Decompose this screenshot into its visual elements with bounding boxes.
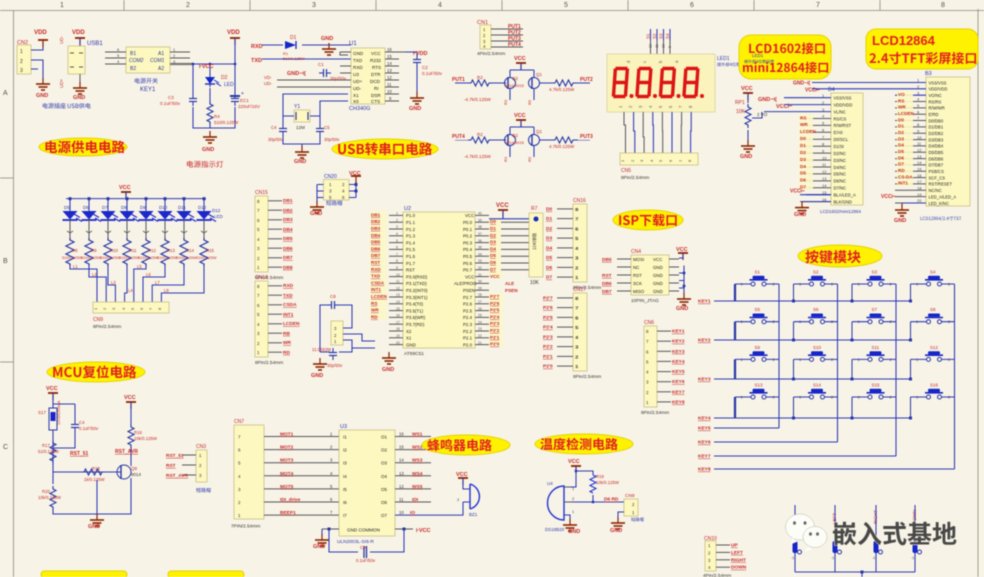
svg-text:35: 35 — [478, 246, 482, 250]
svg-text:D5: D5 — [490, 253, 496, 258]
svg-text:14: 14 — [822, 183, 827, 188]
svg-text:RB: RB — [283, 331, 290, 337]
svg-text:P2'2: P2'2 — [543, 344, 553, 350]
svg-text:E/RD: E/RD — [929, 112, 939, 117]
svg-text:17: 17 — [917, 179, 922, 184]
svg-text:LED1: LED1 — [752, 53, 764, 58]
svg-text:VCC: VCC — [46, 386, 58, 392]
svg-text:D7: D7 — [546, 275, 552, 281]
svg-text:GND: GND — [653, 265, 663, 270]
svg-text:Q9: Q9 — [131, 466, 138, 471]
svg-text:BLK/GND: BLK/GND — [834, 199, 852, 204]
svg-text:WR: WR — [283, 340, 292, 346]
svg-text:DB2: DB2 — [371, 219, 381, 224]
svg-text:PUT1: PUT1 — [452, 77, 465, 83]
svg-text:P3.2(INT0): P3.2(INT0) — [406, 288, 428, 293]
svg-text:D4/NC: D4/NC — [834, 165, 847, 170]
svg-text:P1.0: P1.0 — [406, 213, 416, 218]
svg-text:1: 1 — [329, 182, 332, 187]
svg-text:D8: D8 — [121, 205, 127, 210]
svg-text:UD-: UD- — [264, 81, 272, 86]
svg-text:D6/DB6: D6/DB6 — [929, 156, 944, 161]
svg-text:WR: WR — [898, 105, 906, 110]
svg-text:I5: I5 — [343, 487, 347, 492]
svg-text:18: 18 — [917, 186, 922, 191]
svg-text:12: 12 — [399, 484, 404, 489]
svg-text:32: 32 — [478, 266, 482, 270]
svg-text:8: 8 — [396, 259, 398, 263]
svg-text:10k/0.125W: 10k/0.125W — [596, 480, 620, 485]
svg-text:R3: R3 — [503, 99, 508, 105]
svg-text:CN20: CN20 — [324, 174, 337, 180]
svg-text:TXD: TXD — [353, 58, 363, 63]
svg-text:CN9: CN9 — [625, 493, 635, 499]
svg-text:LCDEN: LCDEN — [371, 294, 388, 299]
svg-text:S4: S4 — [665, 33, 670, 39]
svg-text:16: 16 — [917, 173, 922, 178]
svg-text:12: 12 — [649, 44, 653, 48]
svg-text:5: 5 — [396, 239, 398, 243]
svg-text:LED: LED — [214, 214, 224, 219]
svg-text:19: 19 — [917, 192, 922, 197]
svg-text:11.0592M: 11.0592M — [312, 347, 331, 352]
svg-text:D7: D7 — [898, 162, 904, 167]
svg-text:VDD/VDD: VDD/VDD — [929, 87, 948, 92]
svg-text:GND: GND — [409, 106, 421, 112]
svg-text:510/0.125W: 510/0.125W — [283, 56, 305, 61]
svg-text:GND: GND — [794, 212, 806, 218]
svg-text:DB1: DB1 — [283, 198, 293, 204]
svg-text:S8: S8 — [930, 307, 936, 312]
svg-text:1: 1 — [20, 49, 23, 55]
svg-text:10K: 10K — [530, 280, 540, 286]
svg-text:IO: IO — [410, 510, 415, 516]
svg-text:GND⊣(: GND⊣( — [758, 96, 777, 103]
svg-text:B: B — [3, 258, 8, 265]
svg-text:S13: S13 — [755, 383, 764, 388]
svg-text:P3.7(RD): P3.7(RD) — [406, 322, 425, 327]
svg-text:WS2: WS2 — [412, 445, 423, 451]
svg-text:CN14: CN14 — [255, 275, 268, 281]
svg-text:220uF/16V: 220uF/16V — [238, 104, 260, 109]
svg-text:8Pin/2.54mm: 8Pin/2.54mm — [621, 175, 649, 181]
svg-text:10: 10 — [387, 89, 392, 94]
svg-text:D3/DB3: D3/DB3 — [929, 137, 944, 142]
svg-text:A1: A1 — [158, 51, 164, 57]
svg-text:KEY1: KEY1 — [698, 299, 711, 305]
svg-text:R11: R11 — [129, 248, 137, 253]
svg-text:O6: O6 — [381, 500, 388, 505]
svg-text:X1: X1 — [406, 336, 412, 341]
svg-text:D7: D7 — [102, 205, 108, 210]
svg-text:R12: R12 — [148, 248, 156, 253]
svg-text:CN15: CN15 — [255, 190, 268, 196]
svg-text:P3.0(RXD): P3.0(RXD) — [406, 274, 428, 279]
svg-text:MOT5: MOT5 — [280, 484, 294, 490]
svg-text:L5: L5 — [137, 264, 142, 269]
svg-text:DB5: DB5 — [283, 236, 293, 242]
svg-text:2 VO: 2 VO — [757, 112, 768, 117]
svg-text:DCD: DCD — [370, 79, 381, 84]
svg-text:11: 11 — [399, 497, 404, 502]
svg-text:22: 22 — [478, 334, 482, 338]
svg-text:+: + — [241, 91, 244, 97]
svg-text:D0: D0 — [800, 136, 806, 141]
svg-text:P2'0: P2'0 — [490, 342, 500, 347]
svg-text:L8: L8 — [164, 288, 169, 293]
svg-text:7PIN/2.54mm: 7PIN/2.54mm — [231, 524, 260, 530]
svg-text:P2.7: P2.7 — [463, 295, 473, 300]
svg-text:C8: C8 — [330, 294, 336, 299]
svg-text:INT1: INT1 — [898, 181, 908, 186]
svg-text:P2.0: P2.0 — [463, 342, 473, 347]
svg-text:D1: D1 — [800, 143, 806, 148]
svg-text:L6: L6 — [146, 272, 151, 277]
svg-text:UD+: UD+ — [353, 79, 363, 84]
svg-text:D3: D3 — [800, 157, 806, 162]
svg-text:510/0.125W: 510/0.125W — [214, 120, 239, 125]
svg-text:VCC: VCC — [490, 274, 500, 279]
svg-text:PSEN: PSEN — [463, 288, 475, 293]
svg-text:KEY3: KEY3 — [698, 377, 711, 383]
svg-text:c: c — [642, 61, 647, 63]
svg-text:DOWN: DOWN — [731, 565, 747, 571]
svg-text:D2/NC: D2/NC — [834, 151, 847, 156]
svg-text:KEY5: KEY5 — [698, 426, 711, 432]
svg-text:DS18B20: DS18B20 — [545, 527, 565, 532]
svg-text:UD-: UD- — [353, 86, 362, 91]
svg-text:14: 14 — [917, 160, 922, 165]
svg-text:RST_51: RST_51 — [70, 451, 89, 457]
svg-text:RST/RESET: RST/RESET — [929, 182, 953, 187]
svg-text:1: 1 — [60, 2, 64, 9]
svg-text:S7: S7 — [872, 307, 878, 312]
svg-text:15: 15 — [396, 307, 400, 311]
svg-text:D0/DB0: D0/DB0 — [929, 118, 944, 123]
svg-text:4: 4 — [396, 232, 398, 236]
svg-text:KEY7: KEY7 — [698, 454, 711, 460]
svg-text:30p/50v: 30p/50v — [324, 137, 340, 142]
svg-text:I6: I6 — [343, 500, 347, 505]
svg-text:10: 10 — [399, 510, 404, 515]
svg-text:0.1uF/50v: 0.1uF/50v — [79, 426, 99, 431]
svg-text:DB3: DB3 — [283, 217, 293, 223]
svg-text:D1/SI: D1/SI — [834, 144, 844, 149]
svg-text:D1: D1 — [546, 216, 552, 222]
svg-text:40: 40 — [478, 212, 482, 216]
svg-text:D3: D3 — [490, 240, 496, 245]
svg-text:S2: S2 — [652, 33, 657, 39]
svg-text:S1: S1 — [755, 270, 761, 275]
svg-text:510/0.125W: 510/0.125W — [138, 256, 159, 260]
svg-text:15: 15 — [822, 190, 827, 195]
svg-text:GND: GND — [676, 306, 688, 312]
svg-text:P1.7: P1.7 — [406, 261, 416, 266]
svg-text:VL/NC: VL/NC — [834, 109, 846, 114]
svg-text:I3: I3 — [343, 461, 347, 466]
svg-text:D4/DB4: D4/DB4 — [929, 144, 944, 149]
svg-text:VSS/VSS: VSS/VSS — [834, 96, 852, 101]
svg-text:D1: D1 — [490, 226, 496, 231]
svg-text:CN3: CN3 — [196, 444, 206, 450]
svg-text:PUT2: PUT2 — [580, 77, 593, 83]
svg-text:R19: R19 — [596, 474, 604, 479]
svg-text:12: 12 — [396, 286, 400, 290]
svg-text:C4: C4 — [79, 420, 85, 425]
svg-text:RS/CS: RS/CS — [834, 116, 847, 121]
svg-text:DB7: DB7 — [283, 255, 293, 261]
svg-text:ALE/PROG: ALE/PROG — [454, 281, 477, 286]
svg-text:U3: U3 — [353, 72, 359, 77]
svg-text:SCF_CS: SCF_CS — [929, 175, 946, 180]
svg-text:P2'0: P2'0 — [543, 364, 553, 370]
svg-text:C5: C5 — [324, 125, 330, 130]
svg-text:C2: C2 — [422, 65, 428, 70]
svg-text:BZ1: BZ1 — [469, 512, 478, 517]
svg-text:11: 11 — [655, 44, 659, 48]
svg-text:P0.7: P0.7 — [463, 268, 473, 273]
svg-text:USB1: USB1 — [87, 41, 103, 47]
svg-text:B3: B3 — [925, 71, 932, 77]
svg-text:510/0.125W: 510/0.125W — [176, 256, 197, 260]
svg-text:P2'7: P2'7 — [543, 295, 553, 301]
svg-text:9: 9 — [396, 266, 398, 270]
svg-text:DB5: DB5 — [371, 240, 381, 245]
svg-text:P3.3(INT1): P3.3(INT1) — [406, 295, 428, 300]
svg-text:KEY6: KEY6 — [672, 379, 685, 385]
svg-text:IDI_drive: IDI_drive — [280, 497, 301, 503]
svg-text:DB7: DB7 — [371, 253, 381, 258]
svg-text:P1.5: P1.5 — [406, 247, 416, 252]
svg-text:L4: L4 — [128, 288, 133, 293]
svg-text:KEY4: KEY4 — [672, 359, 685, 365]
svg-text:O1: O1 — [381, 435, 388, 440]
svg-text:VCC: VCC — [465, 213, 474, 218]
svg-text:D1: D1 — [290, 35, 297, 41]
svg-text:D2: D2 — [490, 233, 496, 238]
svg-text:R232: R232 — [370, 58, 381, 63]
svg-text:WR: WR — [371, 308, 379, 313]
svg-text:10PIN_JTAG: 10PIN_JTAG — [631, 298, 659, 304]
svg-text:DB6: DB6 — [371, 246, 381, 251]
svg-text:L1: L1 — [73, 264, 78, 269]
svg-text:D3/NC: D3/NC — [834, 158, 847, 163]
svg-text:12M: 12M — [296, 125, 305, 130]
svg-text:R7: R7 — [531, 206, 538, 212]
svg-text:13: 13 — [917, 154, 922, 159]
svg-text:S11: S11 — [872, 345, 880, 350]
svg-text:GND: GND — [653, 289, 663, 294]
svg-text:S3: S3 — [658, 33, 663, 39]
svg-text:P2.6: P2.6 — [463, 302, 473, 307]
svg-text:C: C — [3, 444, 8, 451]
svg-text:ALE: ALE — [505, 281, 514, 286]
svg-text:KEY4: KEY4 — [698, 416, 711, 422]
svg-text:X2: X2 — [406, 329, 412, 334]
svg-text:510/0.125W: 510/0.125W — [81, 256, 102, 260]
svg-text:9: 9 — [668, 46, 672, 48]
svg-text:PUT4: PUT4 — [508, 42, 521, 48]
svg-text:MISO: MISO — [633, 289, 645, 294]
svg-text:R20: R20 — [42, 489, 50, 494]
svg-text:10: 10 — [396, 273, 400, 277]
svg-text:S12: S12 — [930, 345, 939, 350]
svg-text:-1: -1 — [911, 556, 914, 560]
svg-text:VCC: VCC — [465, 274, 474, 279]
svg-text:D11: D11 — [178, 205, 186, 210]
svg-text:23: 23 — [478, 327, 482, 331]
svg-text:P1.4: P1.4 — [406, 240, 416, 245]
svg-text:EC1: EC1 — [240, 98, 249, 103]
svg-text:CN6: CN6 — [644, 320, 654, 326]
svg-text:U3: U3 — [340, 424, 347, 430]
svg-text:38: 38 — [478, 225, 482, 229]
svg-text:KEY7: KEY7 — [672, 389, 685, 395]
svg-text:X0: X0 — [353, 99, 359, 104]
svg-text:15: 15 — [917, 167, 922, 172]
svg-text:PSEN: PSEN — [505, 288, 518, 293]
svg-text:KEY2: KEY2 — [672, 339, 685, 345]
svg-text:13: 13 — [822, 176, 827, 181]
svg-text:D4: D4 — [490, 246, 496, 251]
svg-text:VCC: VCC — [496, 203, 509, 209]
svg-text:KEY1: KEY1 — [672, 329, 685, 335]
svg-text:P2'1: P2'1 — [543, 354, 553, 360]
svg-text:19: 19 — [396, 334, 400, 338]
svg-text:D5: D5 — [800, 171, 806, 176]
svg-text:NC: NC — [633, 265, 639, 270]
svg-text:LCD1602/mini12864: LCD1602/mini12864 — [820, 209, 862, 214]
svg-text:P2'2: P2'2 — [490, 328, 500, 333]
svg-text:C9-: C9- — [360, 545, 367, 550]
svg-text:RST: RST — [406, 268, 415, 273]
svg-text:PSB/CS: PSB/CS — [929, 169, 945, 174]
svg-text:WS1: WS1 — [412, 432, 423, 438]
svg-text:P2'7: P2'7 — [490, 294, 500, 299]
svg-text:D2: D2 — [221, 75, 228, 81]
svg-text:D4: D4 — [546, 245, 552, 251]
svg-text:0.1uF/50v: 0.1uF/50v — [356, 558, 376, 563]
svg-text:KEY2: KEY2 — [698, 338, 711, 344]
svg-text:P2.1: P2.1 — [463, 336, 473, 341]
svg-text:S15: S15 — [872, 383, 881, 388]
svg-text:RS: RS — [800, 115, 806, 120]
svg-text:P2'6: P2'6 — [490, 301, 500, 306]
svg-text:RST: RST — [633, 273, 642, 278]
svg-text:R9: R9 — [91, 248, 97, 253]
svg-text:KEY8: KEY8 — [672, 399, 685, 405]
svg-text:GND: GND — [353, 51, 364, 56]
svg-text:D6: D6 — [83, 205, 89, 210]
svg-text:CSDA: CSDA — [371, 280, 385, 285]
svg-text:GND: GND — [382, 367, 394, 373]
svg-text:UP: UP — [731, 543, 738, 549]
svg-text:8Pin/2.54mm: 8Pin/2.54mm — [93, 324, 121, 330]
svg-text:CN7: CN7 — [234, 419, 244, 425]
svg-text:10: 10 — [662, 44, 666, 48]
svg-text:510/0.125W: 510/0.125W — [100, 256, 121, 260]
svg-text:34: 34 — [478, 252, 482, 256]
svg-text:P2.2: P2.2 — [463, 329, 473, 334]
svg-text:S17: S17 — [38, 410, 47, 415]
svg-text:Q2: Q2 — [512, 76, 519, 81]
svg-text:D10: D10 — [159, 205, 168, 210]
svg-text:GND⊣(: GND⊣( — [287, 70, 306, 77]
svg-text:D6: D6 — [800, 178, 806, 183]
svg-text:D7: D7 — [490, 267, 496, 272]
svg-text:20: 20 — [917, 198, 922, 203]
svg-text:MOT1: MOT1 — [280, 432, 294, 438]
svg-text:P3.5(T1): P3.5(T1) — [406, 308, 424, 313]
svg-text:⊦VDD: ⊦VDD — [413, 50, 428, 57]
svg-text:R13: R13 — [167, 248, 175, 253]
svg-text:RST_AVR: RST_AVR — [115, 449, 138, 455]
svg-text:D0: D0 — [898, 117, 904, 122]
svg-text:VCC: VCC — [653, 257, 662, 262]
svg-text:MOT4: MOT4 — [280, 471, 294, 477]
svg-text:VDD: VDD — [227, 30, 240, 36]
svg-text:6: 6 — [690, 2, 694, 9]
svg-text:VCC⊢: VCC⊢ — [881, 192, 897, 200]
svg-text:D5: D5 — [546, 255, 552, 261]
svg-text:CSDA: CSDA — [283, 302, 297, 308]
svg-text:R17: R17 — [42, 443, 50, 448]
svg-text:UD-: UD- — [59, 36, 64, 44]
svg-text:R15: R15 — [206, 248, 214, 253]
svg-text:12: 12 — [822, 169, 827, 174]
svg-text:-1: -1 — [791, 556, 794, 560]
svg-text:VO: VO — [898, 92, 905, 97]
svg-text:51/0.125W: 51/0.125W — [38, 449, 60, 454]
svg-text:RST_51: RST_51 — [166, 453, 184, 459]
svg-text:31: 31 — [478, 273, 482, 277]
svg-text:P0.3: P0.3 — [463, 240, 473, 245]
svg-text:I2: I2 — [343, 448, 347, 453]
svg-text:P2'5: P2'5 — [490, 308, 500, 313]
svg-text:GND: GND — [653, 273, 663, 278]
svg-text:S5: S5 — [755, 307, 761, 312]
svg-text:CN16: CN16 — [573, 198, 586, 204]
svg-text:10k/0.125W: 10k/0.125W — [134, 436, 158, 441]
svg-text:D6: D6 — [490, 260, 496, 265]
svg-text:9014/9015: 9014/9015 — [505, 83, 525, 88]
svg-text:LED: LED — [224, 82, 234, 88]
svg-text:KEY1: KEY1 — [140, 87, 156, 93]
svg-text:D6: D6 — [546, 265, 552, 271]
svg-text:3: 3 — [20, 68, 23, 74]
svg-text:S6: S6 — [813, 307, 819, 312]
svg-text:D9: D9 — [140, 205, 146, 210]
svg-text:DTR: DTR — [371, 72, 381, 77]
svg-text:WR: WR — [800, 122, 808, 127]
svg-text:O7: O7 — [381, 513, 388, 518]
svg-text:S3: S3 — [872, 270, 878, 275]
svg-text:S16: S16 — [930, 383, 939, 388]
svg-text:RST: RST — [371, 260, 380, 265]
svg-text:P2.4: P2.4 — [463, 315, 473, 320]
svg-text:1: 1 — [396, 212, 398, 216]
svg-text:D7/DB7: D7/DB7 — [929, 163, 944, 168]
svg-text:B1: B1 — [130, 51, 136, 57]
svg-text:P0.5: P0.5 — [463, 254, 473, 259]
svg-text:D0/SCL: D0/SCL — [834, 137, 849, 142]
svg-text:8Pin/2.54mm: 8Pin/2.54mm — [255, 360, 283, 366]
svg-text:D1: D1 — [898, 124, 904, 129]
svg-text:VDD: VDD — [72, 30, 85, 36]
svg-text:NC/NC: NC/NC — [929, 188, 942, 193]
svg-text:C1: C1 — [318, 62, 324, 67]
svg-text:CN9: CN9 — [93, 317, 103, 323]
